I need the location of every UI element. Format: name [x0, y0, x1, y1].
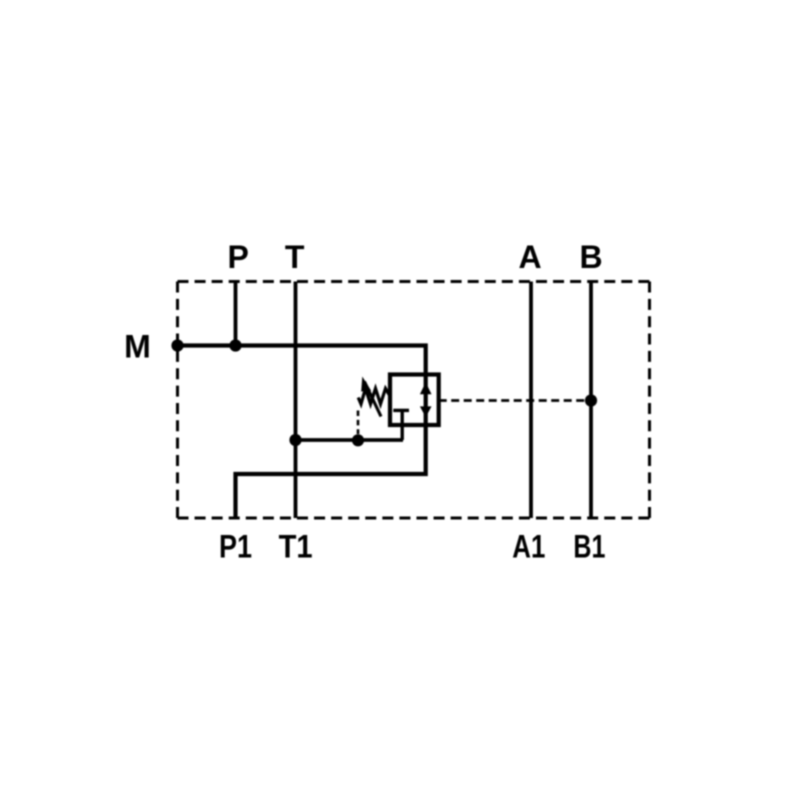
- wire: T to T1 line: [294, 282, 298, 519]
- spring (adjustable): [358, 389, 390, 405]
- wire: drain line T to valve: [296, 438, 404, 442]
- junction node P / M line: [229, 339, 241, 351]
- junction node pilot / drain line: [352, 434, 364, 446]
- svg-text:A: A: [518, 239, 541, 275]
- wire: B to B1 line: [589, 282, 593, 519]
- junction node on M at envelope: [171, 339, 183, 351]
- svg-text:T1: T1: [279, 529, 313, 565]
- wire: A to A1 line: [529, 282, 533, 519]
- adjustment arrow head: [361, 377, 371, 392]
- valve body envelope bottom edge: [178, 517, 650, 520]
- svg-text:A1: A1: [512, 529, 545, 565]
- relief valve V1 envelope: [390, 375, 439, 426]
- pilot dashed line (spring sense): [357, 411, 360, 435]
- svg-text:B: B: [579, 239, 602, 275]
- tank/drain stub bar: [393, 409, 409, 412]
- valve body envelope right edge: [648, 282, 651, 519]
- svg-text:B1: B1: [573, 529, 605, 565]
- junction node pilot / B line: [585, 394, 597, 406]
- svg-text:P1: P1: [219, 529, 252, 565]
- wire: M line through relief valve to P1: [178, 346, 426, 519]
- adjustment arrow shaft: [364, 382, 381, 417]
- valve body envelope left edge: [176, 282, 179, 519]
- svg-text:T: T: [285, 239, 305, 275]
- arrow down (flow path): [420, 406, 432, 417]
- tank/drain stub stem: [401, 411, 404, 440]
- junction node T / drain line: [289, 434, 301, 446]
- svg-text:M: M: [124, 329, 151, 365]
- valve body envelope (dashed rectangle): [178, 280, 650, 283]
- wire: P port stub: [234, 282, 238, 346]
- arrow up (flow path): [420, 382, 432, 394]
- pilot dashed line to B: [439, 399, 585, 402]
- svg-text:P: P: [228, 239, 249, 275]
